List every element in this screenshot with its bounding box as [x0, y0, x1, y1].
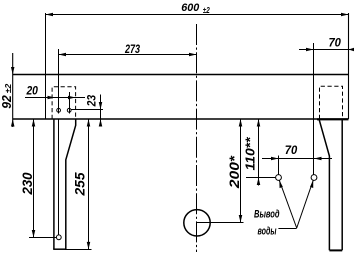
273 left extension line — [58, 49, 60, 114]
92 dim bottom outside arrow — [11, 119, 15, 127]
70 bottom left outside arrow — [271, 157, 279, 161]
600 left arrow — [46, 13, 54, 17]
right leg left edge with taper — [319, 119, 329, 250]
svg-text:Вывод: Вывод — [254, 209, 280, 221]
svg-text:230: 230 — [19, 172, 35, 195]
255 bottom extension line — [65, 249, 92, 251]
centerline (dash-dot) — [196, 24, 198, 252]
leader arrowhead right — [310, 180, 313, 188]
70 bottom right outside arrow — [314, 157, 322, 161]
230 bottom arrow — [32, 230, 36, 238]
leader horizontal to text — [278, 228, 296, 230]
dimension 20 line — [25, 97, 85, 99]
svg-text:600: 600 — [181, 2, 200, 14]
right leg right edge — [341, 119, 343, 250]
23 extension line — [71, 109, 104, 111]
left leg foot bottom edge — [53, 248, 66, 250]
dimension 110 line — [258, 119, 260, 186]
svg-text:70: 70 — [328, 36, 341, 50]
230 top arrow — [32, 119, 36, 127]
right leg bottom edge — [329, 249, 342, 251]
left leg left edge — [53, 119, 55, 249]
255 bottom arrow — [87, 242, 91, 250]
hole circle right small — [67, 108, 71, 112]
water hole circle right — [311, 175, 317, 181]
dimension 23 vertical line — [100, 95, 102, 127]
255 top arrow — [87, 119, 91, 127]
273 right arrow — [189, 53, 197, 57]
svg-text:255: 255 — [72, 172, 88, 196]
svg-text:200*: 200* — [226, 155, 242, 189]
dimension 200 line — [240, 119, 242, 223]
svg-text:70: 70 — [285, 143, 298, 157]
230 bottom extension line to keyhole — [29, 237, 56, 239]
left leg right edge with taper — [66, 119, 76, 249]
600 right arrow — [341, 13, 349, 17]
leader arrowhead left — [279, 180, 283, 188]
dimension 70 bottom line — [262, 158, 332, 160]
svg-text:273: 273 — [124, 42, 140, 56]
svg-text:воды: воды — [258, 226, 277, 238]
leader line left branch — [279, 180, 296, 228]
bar bottom edge — [13, 118, 349, 120]
keyhole circle at left leg bottom — [56, 235, 61, 240]
110 extension line — [246, 177, 275, 179]
extension from left water hole up to 70 dim — [278, 156, 280, 175]
600 left extension line — [45, 13, 47, 119]
bar bottom edge right thick segment — [317, 118, 349, 120]
extension from right small hole up — [69, 92, 71, 114]
dashed rectangle left (hidden bracket) — [52, 87, 76, 119]
110 top arrow — [257, 119, 261, 127]
svg-text:110**: 110** — [242, 136, 257, 170]
bar left edge with 92 dimension line — [12, 53, 14, 127]
bar top edge — [13, 74, 349, 76]
hole circle left small — [57, 108, 61, 112]
big circle (water outlet pipe) — [184, 210, 210, 236]
water hole circle left — [276, 175, 282, 181]
svg-text:±2: ±2 — [203, 5, 210, 15]
dimension 70 top line — [299, 49, 354, 51]
dimension 255 line — [88, 119, 90, 249]
20 arrow at leg left edge — [48, 96, 56, 100]
dashed rectangle right (hidden bracket) — [320, 86, 343, 119]
bar right edge with 600/70 extension — [348, 13, 350, 119]
extension line x=313.9 through bar to hole — [313, 43, 315, 175]
200 top arrow — [239, 119, 243, 127]
23 bottom outside arrow — [99, 119, 103, 127]
extension line from circle center to 200 dim — [197, 222, 244, 224]
dimension 273 line — [59, 54, 197, 56]
dimension 600±2 line — [45, 14, 348, 16]
leader line right branch — [297, 180, 314, 228]
23 top outside arrow — [99, 102, 103, 110]
20 arrow at leg right edge — [68, 96, 76, 100]
dimension 230 line — [33, 119, 35, 238]
92 dim top outside arrow — [11, 67, 15, 75]
svg-text:23: 23 — [87, 94, 99, 107]
70 top left outside arrow — [306, 48, 314, 52]
svg-text:20: 20 — [26, 84, 39, 98]
70 top right outside arrow — [349, 48, 354, 52]
left leg bend line — [58, 119, 60, 235]
273 left arrow — [59, 53, 67, 57]
110 bottom outside arrow — [257, 178, 261, 186]
200 bottom arrow — [239, 215, 243, 223]
